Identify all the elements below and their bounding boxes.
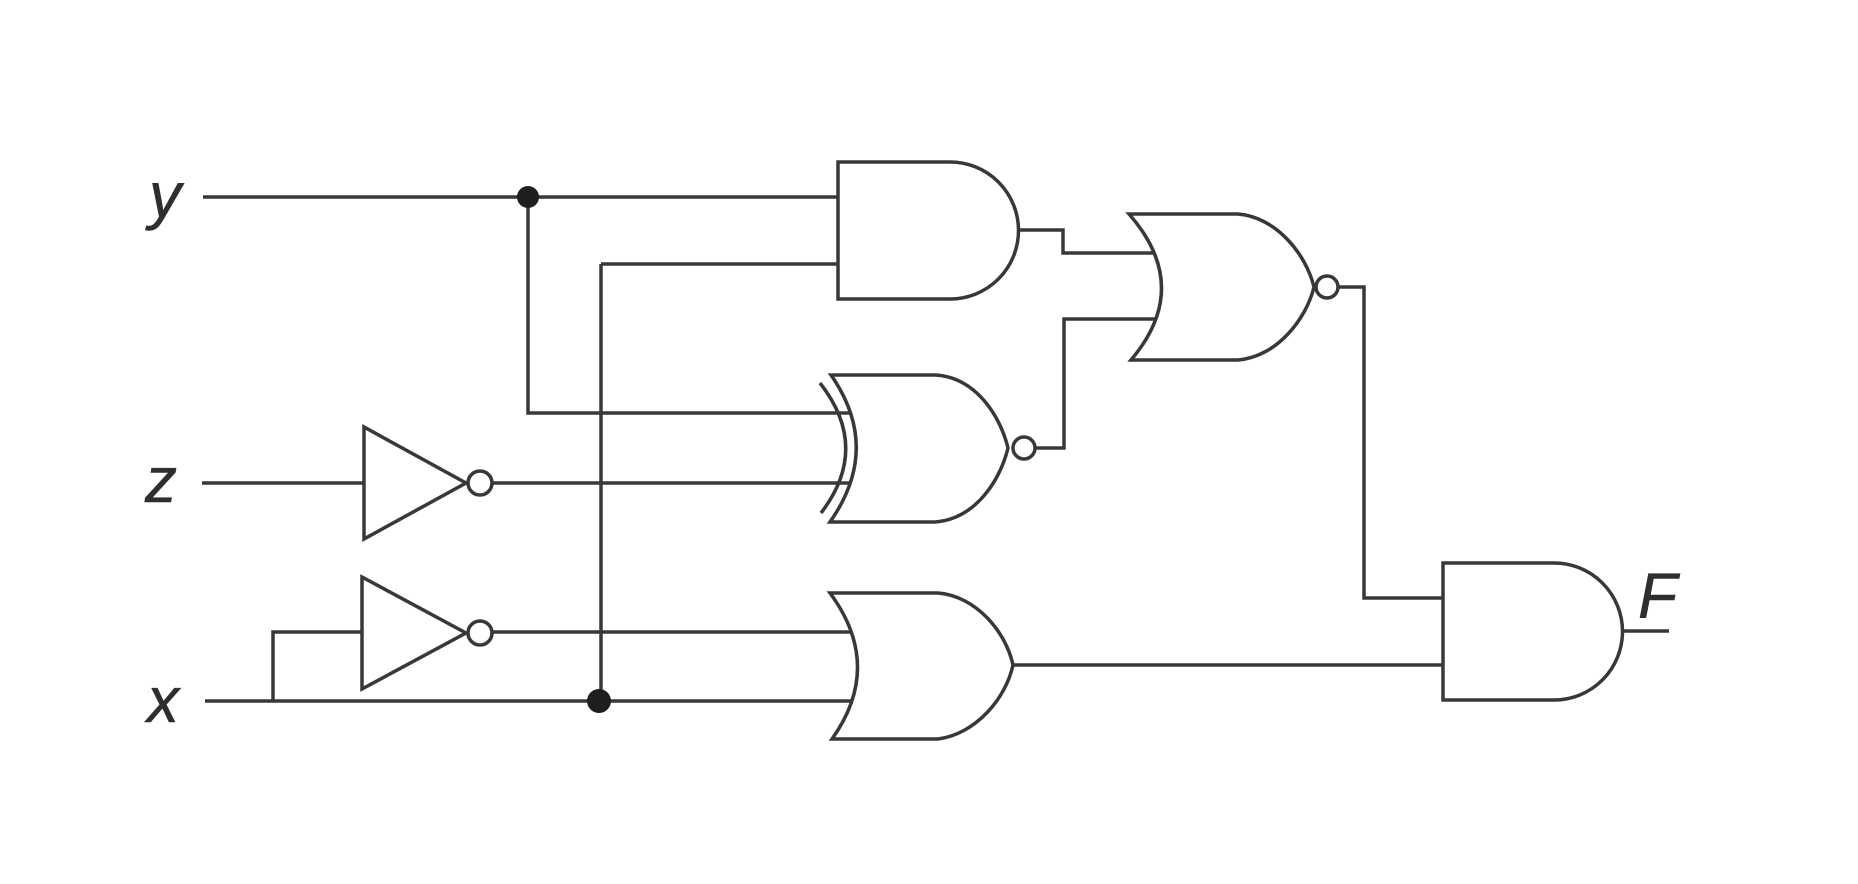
svg-text:z: z [144, 444, 177, 516]
svg-text:y: y [145, 159, 185, 231]
svg-text:F: F [1638, 560, 1681, 632]
svg-text:x: x [144, 664, 181, 736]
